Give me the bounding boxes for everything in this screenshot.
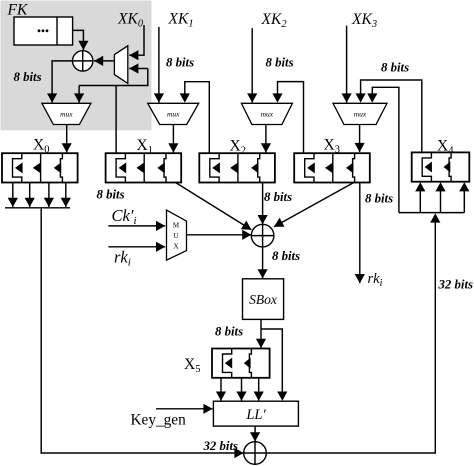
wire XK1 down to mux M1 <box>158 27 160 103</box>
svg-text:Key_gen: Key_gen <box>131 412 187 429</box>
wire Ck'_i into mux M4 <box>108 225 165 227</box>
register X4 <box>412 152 470 181</box>
mux M2 <box>241 103 292 124</box>
wire XK2 down to mux M2 <box>251 28 253 103</box>
X4 input bus <box>399 212 464 214</box>
register X5 <box>212 349 270 378</box>
svg-text:8 bits: 8 bits <box>215 325 243 339</box>
svg-text:mux: mux <box>60 110 73 119</box>
wire X4 tap to mux M3 <box>361 80 422 152</box>
wire SBox bypass to LL <box>261 329 282 393</box>
svg-text:M: M <box>173 222 180 230</box>
svg-text:8 bits: 8 bits <box>365 192 393 206</box>
svg-text:mux: mux <box>261 110 274 119</box>
wire LL output to XOR3 <box>254 426 256 441</box>
mux M3 <box>333 103 387 124</box>
SBox U4 <box>243 279 284 320</box>
svg-text:8 bits: 8 bits <box>166 56 194 70</box>
svg-text:8 bits: 8 bits <box>264 190 292 204</box>
svg-text:Ck′i: Ck′i <box>112 206 137 227</box>
wire mux M1 to register X1 <box>172 125 174 153</box>
wire X0 byte 0 to 32-bit bus <box>12 183 14 208</box>
svg-text:mux: mux <box>354 110 367 119</box>
wire X3 output down to rk_i <box>359 183 361 284</box>
XOR gate U6 (32-bit) <box>244 442 267 465</box>
svg-text:8 bits: 8 bits <box>97 188 125 202</box>
wire XOR1 output to mux M0 <box>52 61 72 103</box>
wire X5 byte 0 to LL <box>220 378 222 401</box>
wire mux M0 to register X0 <box>66 125 68 153</box>
FK constant ROM box <box>14 17 73 45</box>
input mux U1 (2-to-1, FK path) <box>114 46 127 84</box>
svg-text:32 bits: 32 bits <box>438 278 474 292</box>
wire X0 byte 3 to 32-bit bus <box>65 183 67 208</box>
wire FK box output to XOR1 <box>73 30 84 50</box>
wire X1 output diagonal to XOR2 <box>176 183 252 230</box>
wire bus to X4 byte 1 <box>440 189 442 213</box>
wire input-mux output to XOR1 <box>94 60 114 62</box>
wire mux M3 to register X3 <box>359 125 361 153</box>
wire bus to X4 byte 0 <box>419 189 421 213</box>
mux M1 <box>148 103 199 124</box>
wire Key_gen into LL <box>156 408 213 410</box>
register X2 <box>199 153 275 182</box>
wire X0 bus down left side to output XOR <box>41 208 243 453</box>
wire X3 tap to mux M2 <box>278 82 304 153</box>
wire SBox to X5 <box>260 319 262 348</box>
wire X1 tap to input mux lower input <box>115 86 117 154</box>
wire mux M4 to XOR2 <box>187 234 252 236</box>
XOR gate U3 (byte xor) <box>251 224 274 247</box>
wire X5 byte 1 to LL <box>241 378 243 401</box>
wire X0 byte 2 to 32-bit bus <box>48 183 50 208</box>
svg-text:X: X <box>173 243 178 251</box>
svg-text:8 bits: 8 bits <box>381 61 409 75</box>
svg-text:32 bits: 32 bits <box>203 439 239 453</box>
register X1 <box>106 153 182 182</box>
mux M0 <box>42 103 91 124</box>
svg-text:8 bits: 8 bits <box>266 56 294 70</box>
svg-text:U: U <box>173 232 178 240</box>
wire X0 byte 1 to 32-bit bus <box>29 183 31 208</box>
wire rk feedback to mux M3 <box>372 87 399 212</box>
wire rk_i into mux M4 <box>108 246 165 248</box>
wire X5 byte 2 to LL <box>258 378 260 401</box>
XOR gate U2 (FK xor XK0) <box>73 51 93 71</box>
register X0 <box>2 153 78 182</box>
svg-text:FK: FK <box>7 2 28 19</box>
svg-text:8 bits: 8 bits <box>14 70 42 84</box>
wire mux M2 to register X2 <box>265 125 267 153</box>
mux M4 (Ck/rk select) <box>167 210 187 260</box>
wire XK3 down to mux M3 <box>346 26 348 103</box>
svg-text:LL′: LL′ <box>245 407 266 423</box>
wire bus to X4 byte 2 <box>463 189 465 213</box>
LL' linear transform U5 <box>213 401 298 426</box>
wire XOR2 to SBox <box>262 247 264 279</box>
wire XK0 to input mux <box>129 25 144 55</box>
svg-text:mux: mux <box>167 110 180 119</box>
X0 32-bit bus <box>5 207 70 209</box>
svg-text:SBox: SBox <box>249 292 277 307</box>
wire XOR3 output right and up to X4 bus <box>266 220 435 453</box>
FK key-storage shaded region <box>1 1 152 131</box>
wire X2 output down to XOR2 <box>262 183 264 225</box>
wire X2 tap to mux M1 <box>185 82 210 154</box>
register X3 <box>294 153 370 182</box>
wire X1 tap branch to mux M0 right input <box>78 86 80 103</box>
svg-text:8 bits: 8 bits <box>272 249 300 263</box>
wire X3 output diagonal to XOR2 <box>274 183 354 227</box>
